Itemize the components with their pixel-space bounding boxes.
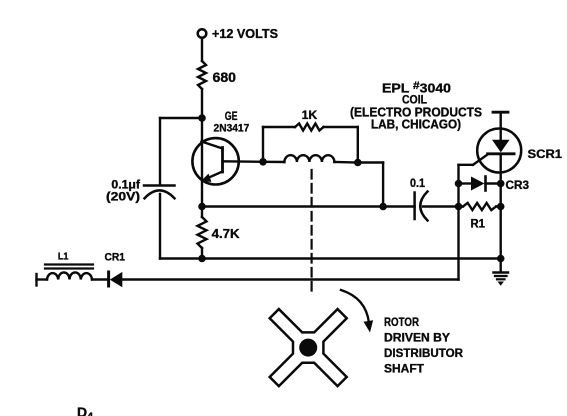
svg-text:SHAFT: SHAFT: [384, 362, 425, 376]
wire R680 to node: [201, 89, 203, 118]
node 4.7K bottom junction: [198, 255, 206, 263]
svg-text:1K: 1K: [302, 110, 318, 122]
diode CR3 anode lead: [459, 182, 472, 184]
svg-text:CR3: CR3: [506, 180, 530, 192]
ground stem: [500, 259, 502, 272]
wire 1K left: [263, 126, 295, 128]
resistor 680: [198, 61, 206, 89]
wire base node to coil: [263, 161, 284, 164]
svg-text:COIL: COIL: [402, 93, 427, 107]
wire terminal to R680: [201, 38, 203, 61]
svg-text:2N3417: 2N3417: [214, 123, 250, 135]
svg-text:+12 VOLTS: +12 VOLTS: [212, 27, 278, 41]
ground bar 1: [494, 271, 509, 274]
diode CR3 triangle: [471, 177, 485, 191]
svg-text:DISTRIBUTOR: DISTRIBUTOR: [384, 346, 463, 360]
inductor trigger coil: [284, 155, 334, 162]
node coil right junction: [354, 159, 362, 167]
inductor L1 core line 2: [45, 267, 93, 269]
diode CR3 cathode lead: [486, 182, 501, 184]
svg-text:0.1μf: 0.1μf: [111, 180, 140, 192]
rotor cross: [240, 280, 376, 416]
wire L1 to CR1: [92, 278, 109, 280]
svg-text:4.7K: 4.7K: [212, 226, 241, 241]
wire 1K down: [357, 127, 359, 163]
SCR1 cathode wire down: [500, 154, 502, 259]
transistor Q1 base wire: [223, 160, 264, 163]
resistor 1K: [295, 124, 324, 131]
transistor Q1 base bar: [221, 148, 224, 173]
capacitor C2 0.1 right curved plate: [420, 192, 427, 221]
node ground junction: [497, 255, 505, 263]
SCR1 top terminal bar: [493, 111, 508, 114]
SCR1 gate stub: [459, 164, 474, 166]
diode CR1 bar: [107, 272, 110, 286]
wire bottom rail: [160, 257, 501, 259]
wire C2 to gate node: [423, 205, 459, 207]
capacitor C1 bottom curved plate: [145, 190, 175, 198]
wire R1 left lead: [459, 205, 464, 207]
svg-text:680: 680: [213, 69, 237, 85]
transistor Q1 circle: [192, 138, 238, 184]
wire node left: [160, 117, 202, 119]
node cap branch junction: [379, 203, 387, 211]
svg-text:0.1: 0.1: [410, 176, 425, 190]
rotor arrow curve: [341, 290, 369, 323]
node CR3 anode junction: [455, 180, 463, 188]
rotor arrow head: [364, 320, 374, 332]
wire right to corner: [358, 161, 383, 163]
node base junction: [259, 158, 267, 166]
inductor L1 core line 1: [45, 263, 93, 265]
node C2 right junction: [455, 203, 463, 211]
svg-text:GE: GE: [225, 109, 238, 123]
svg-text:(20V): (20V): [106, 192, 140, 204]
diode CR3 bar: [484, 177, 487, 191]
wire R1 right lead: [496, 205, 501, 207]
wire C1 to bottom rail: [159, 194, 161, 259]
wire SCR top lead: [500, 112, 502, 140]
rotor hub dot: [299, 339, 317, 357]
terminal +12V: [198, 29, 207, 38]
node R1 right junction: [497, 203, 505, 211]
capacitor C1 0.1uf top plate: [144, 184, 175, 187]
svg-text:L1: L1: [58, 251, 69, 263]
wire corner down: [382, 163, 384, 207]
svg-text:4: 4: [87, 411, 94, 416]
inductor L1: [47, 272, 92, 279]
resistor 4.7K: [198, 217, 207, 248]
wire CR1 to gate corner: [123, 278, 459, 280]
wire 1K right: [324, 126, 358, 128]
capacitor C2 0.1 left plate: [413, 193, 416, 220]
wire base node up: [262, 127, 264, 162]
wire gate vertical: [457, 165, 459, 280]
SCR1 cathode bar: [488, 152, 514, 155]
svg-text:DRIVEN BY: DRIVEN BY: [384, 331, 450, 345]
node junction top: [198, 114, 206, 122]
dashed coupling line: [311, 170, 313, 293]
ground bar 2: [495, 275, 507, 277]
terminal tick left: [35, 274, 37, 286]
svg-text:SCR1: SCR1: [528, 147, 563, 161]
transistor Q1 emitter arrow: [202, 175, 211, 182]
wire coil right: [334, 161, 357, 164]
diode CR1 triangle: [110, 272, 123, 287]
svg-text:D: D: [77, 404, 87, 416]
wire 4.7K top lead: [201, 207, 203, 218]
transistor Q1 collector lead: [202, 142, 223, 149]
transistor Q1 emitter lead: [206, 172, 223, 179]
node CR3 cathode junction: [497, 180, 505, 188]
wire CR1 rail: [37, 278, 48, 280]
SCR1 circle: [477, 129, 521, 173]
svg-text:ROTOR: ROTOR: [384, 315, 419, 329]
SCR1 gate diagonal: [473, 154, 488, 165]
svg-text:R1: R1: [470, 219, 485, 231]
SCR1 triangle: [492, 140, 510, 153]
wire main vertical collector-emitter: [201, 118, 203, 207]
svg-text:LAB, CHICAGO): LAB, CHICAGO): [371, 118, 461, 132]
svg-text:CR1: CR1: [105, 252, 125, 264]
wire 4.7K bottom lead: [201, 248, 203, 259]
ground tip: [498, 282, 504, 286]
ground bar 3: [497, 278, 505, 280]
resistor R1: [463, 203, 496, 210]
wire emitter rail: [202, 205, 415, 207]
node emitter junction: [198, 203, 206, 211]
wire down to C1: [159, 118, 161, 185]
